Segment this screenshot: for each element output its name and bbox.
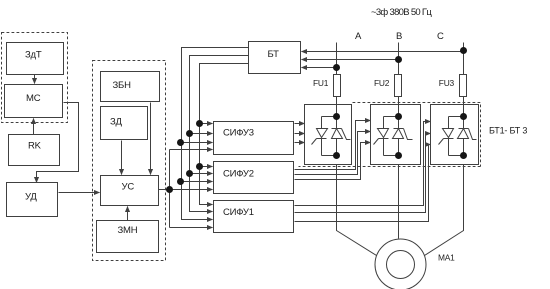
wire FU3 to module БТ3: [463, 97, 465, 117]
svg-text:FU2: FU2: [374, 78, 390, 88]
block УД: [7, 183, 58, 217]
wire phase C to БТ: [302, 51, 464, 53]
thyristor module БТ2: [371, 105, 421, 165]
node bus A junction 1: [177, 139, 184, 146]
wire СИФУ1 output 3 to БТ3: [295, 145, 431, 222]
wire bus C to СИФУ3 input 1: [200, 123, 213, 125]
node phase A tap: [333, 64, 340, 71]
wire МС to УД: [37, 103, 79, 183]
svg-text:УС: УС: [122, 182, 135, 193]
svg-text:МС: МС: [26, 93, 41, 104]
dashed enclosure around ЗБН ЗД УС ЗМН: [93, 61, 166, 261]
node УС bus junction: [166, 186, 173, 193]
svg-text:БТ: БТ: [268, 49, 280, 60]
block БТ: [249, 42, 301, 74]
svg-text:МА1: МА1: [438, 253, 455, 263]
svg-text:ЗБН: ЗБН: [113, 80, 132, 91]
block СИФУ3: [214, 122, 294, 155]
wire ЗД to УС: [121, 141, 123, 175]
fuse FU3: [439, 75, 467, 97]
block СИФУ1: [214, 201, 294, 233]
wire УС output to СИФУ2 input 4: [159, 189, 213, 191]
node phase B tap: [395, 56, 402, 63]
svg-text:A: A: [355, 31, 362, 42]
wire УС branch to СИФУ1 input 4: [170, 227, 213, 229]
wire СИФУ2 output 1 to БТ2: [295, 121, 371, 170]
wire БТ output 3 bus C: [200, 64, 250, 205]
wire БТ1 to motor: [337, 165, 377, 256]
thyristor module БТ1: [305, 105, 352, 165]
wire БТ3 to motor: [425, 165, 464, 256]
wire УС bus vertical: [169, 150, 171, 228]
svg-text:FU1: FU1: [313, 78, 329, 88]
svg-text:~3ф 380В 50 Гц: ~3ф 380В 50 Гц: [371, 7, 432, 18]
wire СИФУ3 output 1 to БТ1: [295, 123, 305, 125]
block УС: [101, 176, 159, 206]
wire СИФУ2 output 3 to БТ2: [295, 143, 371, 180]
node bus C junction 2: [196, 163, 203, 170]
svg-text:ЗМН: ЗМН: [118, 225, 138, 236]
svg-text:FU3: FU3: [439, 78, 455, 88]
svg-text:C: C: [437, 31, 444, 42]
wire bus B to СИФУ3 input 2: [190, 133, 213, 135]
wire bus A to СИФУ2 input 3: [182, 181, 213, 183]
svg-text:ЗД: ЗД: [110, 117, 123, 128]
wire bus C to СИФУ2 input 1: [200, 166, 213, 168]
dashed enclosure around ЗДТ and МС: [2, 33, 68, 123]
wire СИФУ3 output 3 to БТ1: [295, 142, 305, 144]
wire bus A to СИФУ3 input 3: [182, 142, 213, 144]
motor МА1: [375, 239, 455, 289]
wire phase A drop: [336, 43, 338, 75]
svg-text:СИФУ1: СИФУ1: [223, 207, 254, 218]
svg-text:ЗдТ: ЗдТ: [25, 50, 42, 61]
block ЗМН: [97, 221, 159, 253]
svg-text:СИФУ3: СИФУ3: [223, 128, 254, 139]
block ЗБН: [101, 72, 160, 102]
svg-text:БТ1- БТ 3: БТ1- БТ 3: [489, 126, 527, 136]
wire СИФУ3 output 2 to БТ1: [295, 133, 305, 135]
block ЗДТ: [7, 43, 64, 75]
block ЗД: [101, 107, 148, 140]
wire ЗМН to УС: [127, 207, 129, 222]
wire bus B to СИФУ2 input 2: [190, 173, 213, 175]
block МС: [5, 85, 63, 118]
wire phase C drop: [463, 43, 465, 75]
block СИФУ2: [214, 162, 294, 194]
fuse FU2: [374, 75, 402, 97]
dashed enclosure БТ1-БТ3: [353, 103, 481, 167]
wire ЗДТ to МС: [34, 75, 36, 84]
node bus B junction 1: [186, 130, 193, 137]
block RK: [9, 135, 60, 166]
wire СИФУ1 output 1 to БТ3: [295, 122, 431, 206]
wire phase A to БТ: [302, 67, 337, 69]
wire FU2 to module БТ2: [398, 97, 400, 117]
fuse FU1: [313, 75, 341, 97]
svg-text:RK: RK: [28, 141, 42, 152]
svg-text:СИФУ2: СИФУ2: [223, 169, 254, 180]
svg-text:B: B: [396, 31, 402, 42]
wire УС branch to СИФУ3 input 4: [170, 149, 213, 151]
wire phase B drop: [398, 43, 400, 75]
wire СИФУ2 output 2 to БТ2: [295, 132, 371, 175]
wire БТ2 to motor: [398, 165, 400, 239]
svg-text:УД: УД: [25, 192, 37, 203]
wire БТ output 2 bus B: [190, 56, 250, 212]
wire phase B to БТ: [302, 59, 399, 61]
node bus C junction 1: [196, 120, 203, 127]
wire УД to УС: [59, 192, 100, 194]
wire FU1 to module БТ1: [336, 97, 338, 117]
node bus A junction 2: [177, 178, 184, 185]
wire СИФУ1 output 2 to БТ3: [295, 134, 431, 213]
wire БТ output 1 bus A: [182, 48, 250, 220]
thyristor module БТ3: [431, 105, 479, 165]
wire RK to МС: [33, 119, 35, 135]
node bus B junction 2: [186, 170, 193, 177]
wire ЗБН to УС: [150, 103, 152, 175]
node phase C tap: [460, 47, 467, 54]
